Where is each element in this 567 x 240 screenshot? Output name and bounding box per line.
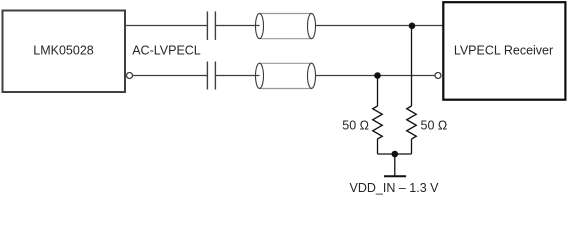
wire top: T1 to U2 (316, 25, 443, 27)
transmission line T1 (top cylinder) (256, 13, 316, 38)
wire bottom: C2 to T2 (215, 75, 259, 77)
inverting output pin circle on U1 (127, 73, 133, 79)
svg-text:VDD_IN – 1.3 V: VDD_IN – 1.3 V (350, 181, 440, 195)
wire bottom: T2 to U2 pin (316, 75, 436, 77)
svg-text:AC-LVPECL: AC-LVPECL (132, 44, 201, 58)
junction node on bottom wire (374, 72, 381, 79)
wire top: C1 to T1 (215, 25, 259, 27)
inverting input pin circle on U2 (435, 73, 441, 79)
capacitor C1 (top coupling cap) (207, 11, 215, 40)
svg-text:LVPECL Receiver: LVPECL Receiver (454, 44, 553, 58)
wire: node down to VDD rail (394, 154, 396, 176)
wire top: U1 output to C1 (126, 25, 208, 27)
junction node at resistor common point (392, 151, 399, 158)
power rail VDD_IN bar (384, 175, 406, 177)
transmission line T2 (bottom cylinder) (256, 63, 316, 88)
wire: top node down to R2 (411, 26, 413, 107)
svg-text:50 Ω: 50 Ω (342, 119, 369, 133)
wire bottom: U1 pin to C2 (133, 75, 208, 77)
capacitor C2 (bottom coupling cap) (207, 62, 215, 90)
resistor R2 50 ohm (407, 106, 448, 154)
resistor R1 50 ohm (342, 106, 382, 154)
wire: R1 bottom to R2 bottom (378, 153, 412, 155)
IC U1 LMK05028 box (3, 11, 126, 93)
wire: bottom node down to R1 (377, 76, 379, 107)
svg-text:50 Ω: 50 Ω (421, 119, 448, 133)
junction node on top wire (409, 23, 416, 30)
svg-text:LMK05028: LMK05028 (33, 44, 94, 58)
IC U2 LVPECL Receiver box (443, 2, 565, 100)
